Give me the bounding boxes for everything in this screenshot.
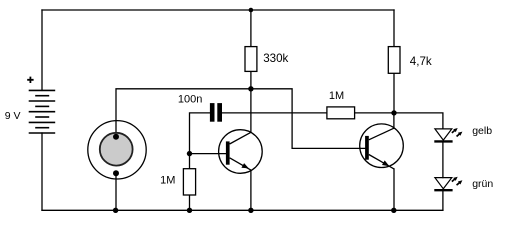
svg-text:grün: grün [472, 178, 493, 190]
svg-text:gelb: gelb [472, 125, 492, 137]
svg-text:1M: 1M [329, 90, 344, 102]
svg-text:330k: 330k [263, 52, 288, 65]
svg-text:1M: 1M [160, 175, 175, 187]
svg-text:4,7k: 4,7k [410, 55, 432, 68]
svg-text:100n: 100n [178, 94, 202, 106]
svg-text:9 V: 9 V [5, 110, 21, 122]
